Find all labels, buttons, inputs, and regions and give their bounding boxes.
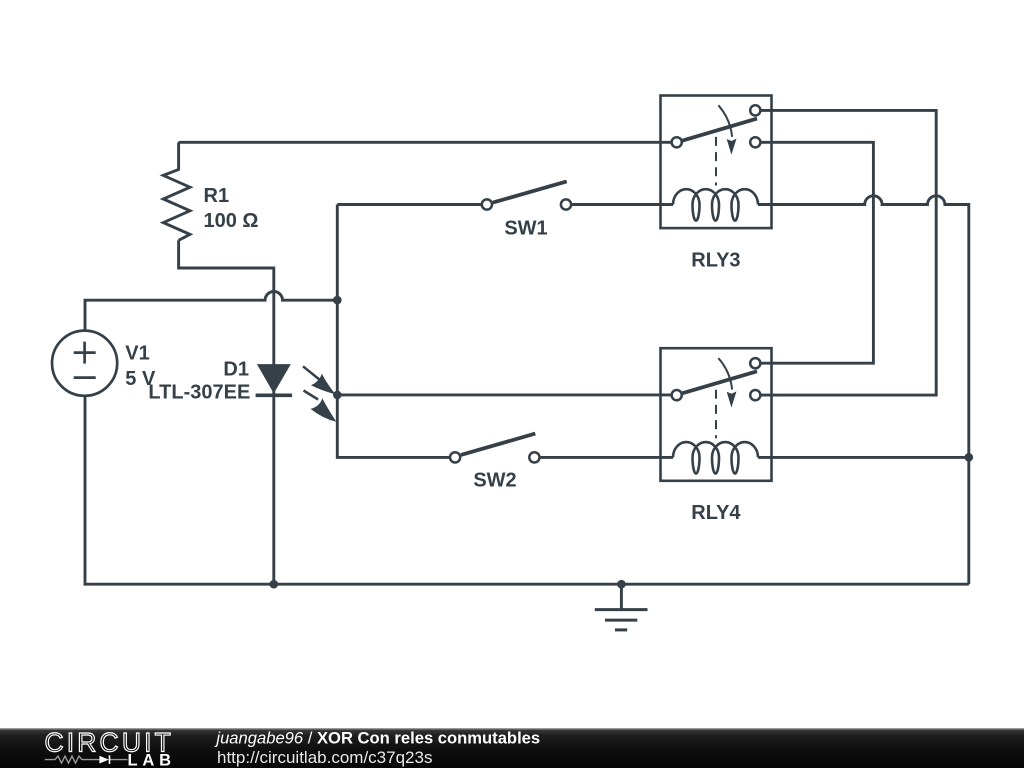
svg-text:R1: R1 (204, 185, 230, 207)
svg-text:RLY3: RLY3 (691, 249, 740, 271)
svg-text:100 Ω: 100 Ω (204, 210, 259, 232)
svg-text:juangabe96 / XOR Con reles con: juangabe96 / XOR Con reles conmutables (214, 729, 540, 748)
svg-text:SW2: SW2 (473, 470, 516, 492)
svg-text:SW1: SW1 (504, 218, 547, 240)
svg-text:LAB: LAB (128, 752, 173, 768)
svg-text:V1: V1 (125, 342, 149, 364)
svg-text:LTL-307EE: LTL-307EE (148, 382, 250, 404)
svg-text:RLY4: RLY4 (691, 502, 741, 524)
svg-text:http://circuitlab.com/c37q23s: http://circuitlab.com/c37q23s (217, 748, 432, 767)
svg-text:D1: D1 (223, 359, 249, 381)
